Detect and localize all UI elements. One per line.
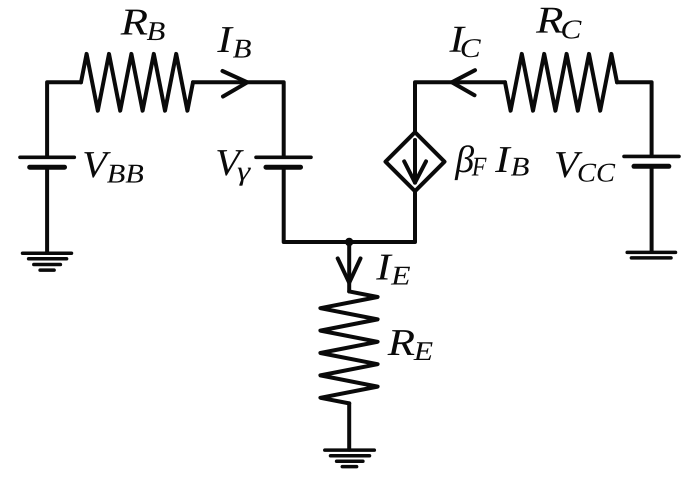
label V_BB	[84, 152, 143, 183]
battery V_BB short plate	[30, 165, 65, 170]
label R_C	[536, 8, 582, 39]
resistor R_C	[505, 54, 617, 111]
wire R_C to V_CC top corner	[617, 82, 652, 155]
battery V_gamma short plate	[266, 165, 301, 170]
ground (right, under V_CC)	[627, 252, 675, 258]
label I_B	[217, 27, 251, 57]
label R_B	[121, 10, 165, 40]
battery V_gamma long plate	[256, 156, 311, 160]
wire V_CC to ground	[650, 168, 654, 252]
wire R_B to V_gamma top corner	[193, 82, 284, 155]
dependent source internal arrow	[404, 140, 426, 183]
wire bottom rail node to diamond	[349, 191, 415, 242]
battery V_BB long plate	[20, 156, 74, 160]
label V_CC	[556, 152, 615, 182]
ground (bottom, under R_E)	[325, 450, 375, 467]
battery V_CC long plate	[624, 155, 679, 159]
ground (left, under V_BB)	[23, 253, 72, 270]
label beta_F I_B	[455, 145, 529, 180]
wire diamond top to I_C corner	[415, 82, 505, 132]
current arrow I_B	[223, 71, 248, 97]
resistor R_E	[320, 291, 377, 403]
wire V_gamma down to bottom rail	[284, 169, 350, 242]
resistor R_B	[81, 54, 193, 111]
dependent current source diamond (beta_F I_B)	[386, 132, 445, 191]
label V_gamma	[217, 150, 251, 186]
label I_E	[376, 255, 410, 285]
wire node down to R_E	[347, 242, 351, 291]
current arrow I_E	[338, 258, 361, 282]
wire top-left corner: V_BB to R_B	[47, 82, 81, 155]
label R_E	[388, 330, 433, 360]
wire R_E to ground	[347, 403, 351, 449]
battery V_CC short plate	[634, 164, 669, 169]
wire V_BB to ground	[45, 169, 49, 253]
node (emitter junction dot)	[345, 238, 353, 246]
current arrow I_C	[452, 70, 475, 95]
label I_C	[449, 27, 481, 58]
